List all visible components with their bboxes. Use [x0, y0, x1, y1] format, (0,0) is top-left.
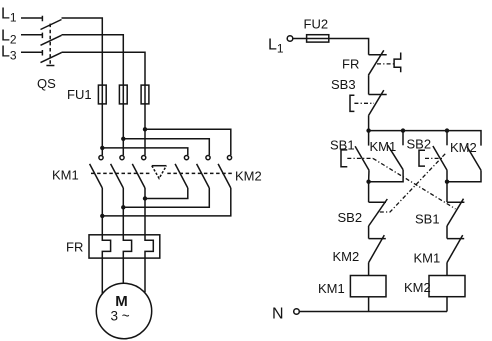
- pushbutton SB3 bar: [369, 94, 387, 96]
- wire fuse3 to KM1 pole3: [144, 104, 146, 155]
- wire KM1 top stub: [402, 131, 404, 146]
- pushbutton SB1 linkage dash-dot: [347, 157, 373, 159]
- contact KM2 NC blade: [369, 235, 385, 263]
- relay contact FR bar: [369, 54, 387, 56]
- wire SB1 top stub: [368, 131, 370, 146]
- contact KM2 NC bar: [369, 238, 386, 240]
- wire coil KM2 to N bus: [446, 297, 448, 312]
- wire FR to motor 3: [144, 258, 146, 292]
- FR heater 3: [145, 235, 153, 258]
- wire SB2 bottom: [446, 170, 448, 182]
- interlock triangle: [152, 166, 167, 179]
- svg-text:KM1: KM1: [318, 281, 345, 296]
- pushbutton SB2 NC blade: [369, 199, 388, 226]
- relay contact FR blade: [368, 50, 383, 75]
- wire KM1 pole3 down: [144, 188, 146, 235]
- svg-text:FU1: FU1: [67, 87, 92, 102]
- wire fuse1 to KM1 pole1: [101, 104, 103, 155]
- switch QS pole 1 blade: [41, 20, 62, 30]
- node N label: [272, 306, 284, 323]
- motor M circle: [96, 283, 151, 338]
- node L1 label: [1, 6, 17, 25]
- junction phase3 tap: [143, 127, 147, 131]
- coil KM1: [350, 276, 386, 297]
- fuse FU1 element 3: [141, 85, 149, 104]
- node L3 label: [1, 44, 17, 63]
- wire KM2 NC to coil KM1: [368, 263, 370, 276]
- wire tap phase1 to KM2 pole1: [102, 148, 188, 155]
- wire KM2 pole2 cross to phase2: [123, 188, 209, 207]
- KM2 pole1 terminal: [184, 156, 188, 160]
- KM1 pole2 blade: [111, 164, 124, 188]
- svg-text:N: N: [272, 306, 284, 323]
- relay FR trip symbol: [394, 53, 401, 73]
- KM1 pole3 terminal: [142, 156, 146, 160]
- junction cross row2: [121, 205, 125, 209]
- svg-text:KM2: KM2: [235, 169, 262, 184]
- pushbutton SB1 NC bar: [447, 201, 464, 203]
- coil KM2: [429, 276, 465, 297]
- wire L3 in: [21, 50, 42, 56]
- KM2 pole1 blade: [175, 164, 188, 188]
- interlock dashed line right: [167, 172, 233, 174]
- junction bus at SB1: [366, 128, 370, 132]
- wire tap phase3 to KM2 pole3: [145, 129, 231, 155]
- contact KM1 NC blade: [447, 235, 463, 263]
- pushbutton SB2 label: [407, 137, 432, 152]
- junction cross row1: [143, 196, 147, 200]
- KM1 pole2 terminal: [120, 156, 124, 160]
- FR heater 2: [123, 235, 131, 258]
- wire SB1 NC to KM1 NC: [446, 226, 448, 239]
- KM1 pole1 terminal: [99, 156, 103, 160]
- pushbutton SB3 blade: [368, 90, 383, 116]
- wire KM1 pole2 down: [122, 188, 124, 235]
- pushbutton SB1 cap: [341, 150, 347, 167]
- wire SB3 to bus: [368, 116, 370, 131]
- wire KM2 aux bottom to node B: [447, 170, 481, 181]
- node L2 label: [1, 28, 17, 47]
- svg-text:SB3: SB3: [331, 77, 356, 92]
- KM2 pole2 terminal: [206, 156, 210, 160]
- contact KM1 aux blade: [388, 145, 403, 170]
- svg-text:3 ~: 3 ~: [111, 308, 130, 323]
- svg-text:FR: FR: [342, 57, 359, 72]
- wire L3 to fuse 3: [62, 52, 146, 85]
- junction cross row3: [100, 214, 104, 218]
- svg-text:KM2: KM2: [333, 249, 360, 264]
- svg-text:KM2: KM2: [450, 140, 477, 155]
- wire L1 in: [21, 16, 42, 21]
- wire KM1 NC to coil KM2: [446, 263, 448, 276]
- KM1 pole3 blade: [132, 164, 145, 188]
- wire FU2 to corner: [329, 39, 369, 55]
- svg-text:SB2: SB2: [407, 137, 432, 152]
- pushbutton SB1 NC blade: [447, 199, 464, 226]
- svg-text:L1: L1: [1, 6, 17, 25]
- switch QS pole 2 blade: [41, 35, 62, 45]
- KM2 pole3 blade: [218, 164, 231, 188]
- wire SB1 bottom: [368, 170, 370, 182]
- FR heater 1: [102, 235, 110, 258]
- node N terminal: [294, 309, 300, 315]
- contact KM1 NC label: [414, 251, 441, 266]
- mechanical link SB2 dash-dot diagonal: [378, 154, 446, 212]
- wire N bus: [299, 311, 447, 313]
- junction bus at KM1: [401, 128, 405, 132]
- wire KM1 aux bottom to node A: [369, 170, 404, 182]
- coil KM2 label: [404, 280, 431, 295]
- pushbutton SB2 cap: [419, 150, 425, 166]
- wire KM2 pole3 cross to phase1: [102, 188, 231, 216]
- contact KM1 NC bar: [447, 238, 464, 240]
- fuse FU1 element 1: [98, 85, 106, 104]
- wire L1 to fuse 1: [62, 18, 103, 85]
- junction phase1 tap: [100, 146, 104, 150]
- KM2 pole2 blade: [197, 164, 210, 188]
- wire KM2 pole1 cross to phase3: [145, 188, 188, 199]
- junction node B: [445, 180, 449, 184]
- switch QS label: [37, 76, 56, 91]
- contactor KM1 label: [52, 168, 79, 183]
- pushbutton SB3 label: [331, 77, 356, 92]
- switch QS pole 3 blade: [41, 53, 62, 63]
- control bus wire: [369, 131, 481, 146]
- pushbutton SB3 linkage dash-dot: [354, 102, 374, 104]
- wire tap phase2 to KM2 pole2: [123, 139, 209, 156]
- mechanical link SB1 dash-dot diagonal: [373, 158, 456, 209]
- wire L1 to FU2: [293, 38, 307, 40]
- pushbutton SB1 NC label: [415, 212, 440, 227]
- svg-text:SB2: SB2: [338, 210, 363, 225]
- wire node A to SB2 NC: [368, 182, 370, 203]
- junction bus at SB2: [445, 128, 449, 132]
- wire fuse2 to KM1 pole2: [122, 104, 124, 155]
- relay FR trip linkage dash-dot: [377, 63, 394, 65]
- wire SB2 NC to KM2 NC: [368, 226, 370, 239]
- contactor KM2 label: [235, 169, 262, 184]
- svg-text:KM1: KM1: [414, 251, 441, 266]
- junction node A: [366, 180, 370, 184]
- svg-text:KM2: KM2: [404, 280, 431, 295]
- relay contact FR (NC) label: [342, 57, 359, 72]
- wire FR to motor 1: [101, 258, 103, 294]
- wire L2 to fuse 2: [62, 35, 124, 85]
- svg-text:FR: FR: [66, 240, 83, 255]
- svg-text:QS: QS: [37, 76, 56, 91]
- junction phase2 tap: [121, 137, 125, 141]
- wire node B to SB1 NC: [446, 182, 448, 203]
- svg-text:L1: L1: [268, 37, 284, 56]
- pushbutton SB1 label: [330, 138, 355, 153]
- contact KM2 NC label: [333, 249, 360, 264]
- contact KM1 aux label: [370, 139, 397, 154]
- pushbutton SB1 blade: [355, 146, 369, 170]
- fuse FU1 element 2: [119, 85, 127, 104]
- motor 3~ label: [111, 308, 130, 323]
- contact KM2 aux label: [450, 140, 477, 155]
- fuse FU2: [307, 35, 329, 42]
- pushbutton SB2 linkage dash-dot: [425, 157, 442, 159]
- pushbutton SB3 cap: [350, 95, 354, 111]
- wire KM1 pole1 down: [101, 188, 103, 235]
- pushbutton SB2 NC bar: [369, 201, 386, 203]
- svg-text:FU2: FU2: [304, 17, 329, 32]
- wire FR to SB3: [368, 75, 370, 94]
- coil KM1 label: [318, 281, 345, 296]
- thermal relay FR label: [66, 240, 83, 255]
- wire SB2 top stub: [446, 131, 448, 146]
- control L1 terminal: [287, 36, 293, 42]
- svg-text:SB1: SB1: [415, 212, 440, 227]
- fuse FU2 label: [304, 17, 329, 32]
- svg-text:KM1: KM1: [52, 168, 79, 183]
- wire coil KM1 to N bus: [368, 297, 370, 312]
- switch QS linkage dashed: [46, 24, 54, 66]
- motor M label: [115, 293, 128, 310]
- KM2 pole3 terminal: [227, 156, 231, 160]
- KM1 pole1 blade: [90, 164, 103, 188]
- pushbutton SB2 NC label: [338, 210, 363, 225]
- wire L2 in: [21, 33, 42, 39]
- wire FR to motor 2: [122, 258, 124, 283]
- contact KM2 aux blade: [467, 147, 481, 171]
- control L1 label: [268, 37, 284, 56]
- interlock dashed line left: [91, 172, 151, 174]
- pushbutton SB2 blade: [433, 146, 447, 170]
- thermal relay FR box: [89, 235, 160, 258]
- fuse FU1 label: [67, 87, 92, 102]
